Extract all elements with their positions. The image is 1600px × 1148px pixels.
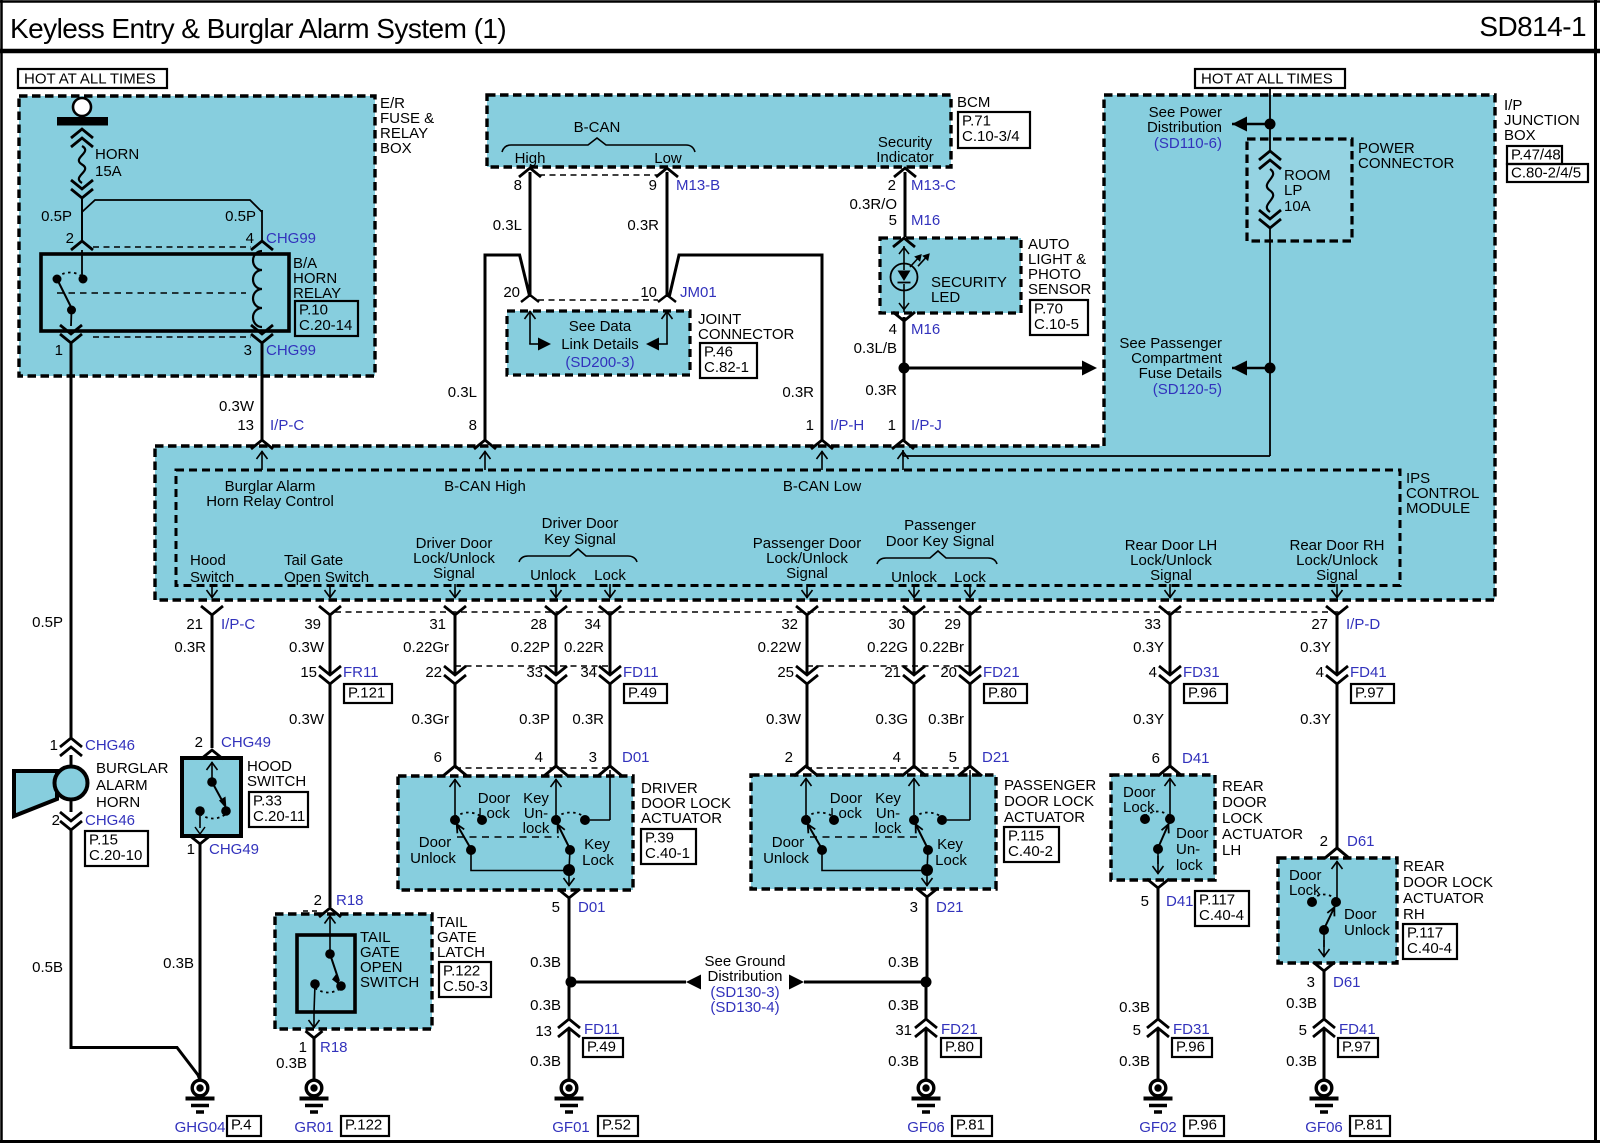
svg-text:0.22P: 0.22P xyxy=(511,639,550,656)
svg-text:REAR: REAR xyxy=(1222,778,1264,795)
svg-text:SENSOR: SENSOR xyxy=(1028,281,1092,298)
svg-text:34: 34 xyxy=(580,664,597,681)
svg-text:0.3L/B: 0.3L/B xyxy=(854,340,897,357)
svg-text:Signal: Signal xyxy=(786,565,828,582)
svg-text:GR01: GR01 xyxy=(294,1119,333,1136)
svg-text:C.82-1: C.82-1 xyxy=(704,359,749,376)
svg-text:D41: D41 xyxy=(1182,750,1210,767)
svg-text:2: 2 xyxy=(66,230,74,247)
svg-text:P.96: P.96 xyxy=(1176,1039,1205,1056)
svg-text:JM01: JM01 xyxy=(680,284,717,301)
svg-text:Door: Door xyxy=(772,834,805,851)
svg-text:8: 8 xyxy=(514,177,522,194)
svg-text:2: 2 xyxy=(785,749,793,766)
svg-text:C.40-2: C.40-2 xyxy=(1008,843,1053,860)
svg-text:FD31: FD31 xyxy=(1183,664,1220,681)
svg-text:4: 4 xyxy=(893,749,901,766)
svg-text:Keyless Entry & Burglar Alarm: Keyless Entry & Burglar Alarm System (1) xyxy=(10,13,506,44)
svg-text:P.49: P.49 xyxy=(628,685,657,702)
svg-text:34: 34 xyxy=(584,616,601,633)
svg-text:P.33: P.33 xyxy=(253,793,282,810)
svg-text:0.3W: 0.3W xyxy=(219,398,255,415)
svg-text:ACTUATOR: ACTUATOR xyxy=(641,810,722,827)
svg-text:C.50-3: C.50-3 xyxy=(443,978,488,995)
svg-text:P.46: P.46 xyxy=(704,344,733,361)
svg-text:D61: D61 xyxy=(1347,833,1375,850)
svg-text:lock: lock xyxy=(875,820,902,837)
svg-text:P.121: P.121 xyxy=(348,685,385,702)
svg-text:(SD130-4): (SD130-4) xyxy=(710,999,779,1016)
svg-text:4: 4 xyxy=(1316,664,1324,681)
svg-text:D01: D01 xyxy=(622,749,650,766)
svg-text:20: 20 xyxy=(940,664,957,681)
svg-text:I/P-C: I/P-C xyxy=(221,616,255,633)
svg-text:MODULE: MODULE xyxy=(1406,500,1470,517)
svg-text:Unlock: Unlock xyxy=(1344,922,1390,939)
svg-text:Unlock: Unlock xyxy=(763,850,809,867)
svg-text:DOOR: DOOR xyxy=(1222,794,1267,811)
svg-text:10: 10 xyxy=(640,284,657,301)
svg-text:0.3B: 0.3B xyxy=(1286,995,1317,1012)
svg-text:BOX: BOX xyxy=(1504,127,1536,144)
svg-text:0.22G: 0.22G xyxy=(867,639,908,656)
svg-text:ALARM: ALARM xyxy=(96,777,148,794)
svg-text:FD11: FD11 xyxy=(623,664,659,681)
svg-text:5: 5 xyxy=(889,212,897,229)
svg-text:M16: M16 xyxy=(911,212,940,229)
svg-text:0.3Y: 0.3Y xyxy=(1300,639,1331,656)
svg-text:CHG49: CHG49 xyxy=(209,841,259,858)
svg-text:15: 15 xyxy=(300,664,317,681)
svg-text:D21: D21 xyxy=(982,749,1010,766)
svg-text:Tail Gate: Tail Gate xyxy=(284,552,343,569)
svg-text:Signal: Signal xyxy=(433,565,475,582)
svg-text:P.122: P.122 xyxy=(443,963,480,980)
svg-text:25: 25 xyxy=(777,664,794,681)
svg-text:CONNECTOR: CONNECTOR xyxy=(1358,155,1455,172)
svg-text:Hood: Hood xyxy=(190,552,226,569)
svg-text:P.4: P.4 xyxy=(231,1117,252,1134)
svg-text:28: 28 xyxy=(530,616,547,633)
svg-text:2: 2 xyxy=(52,812,60,829)
svg-text:SD814-1: SD814-1 xyxy=(1479,11,1586,42)
svg-text:Distribution: Distribution xyxy=(1147,119,1222,136)
svg-text:0.3R: 0.3R xyxy=(572,711,604,728)
svg-text:LP: LP xyxy=(1284,182,1302,199)
svg-text:FD41: FD41 xyxy=(1339,1021,1376,1038)
svg-text:Lock: Lock xyxy=(830,805,862,822)
svg-text:FR11: FR11 xyxy=(343,664,379,681)
svg-text:Door: Door xyxy=(1176,825,1209,842)
svg-text:P.97: P.97 xyxy=(1342,1039,1371,1056)
svg-text:RELAY: RELAY xyxy=(293,285,341,302)
svg-text:Driver Door: Driver Door xyxy=(542,515,619,532)
svg-text:HOT AT ALL TIMES: HOT AT ALL TIMES xyxy=(1201,71,1333,88)
svg-text:4: 4 xyxy=(246,230,254,247)
svg-text:B-CAN: B-CAN xyxy=(574,119,621,136)
svg-text:1: 1 xyxy=(55,342,63,359)
svg-text:9: 9 xyxy=(649,177,657,194)
svg-text:Lock: Lock xyxy=(1289,882,1321,899)
svg-text:P.115: P.115 xyxy=(1008,828,1044,845)
svg-text:0.3B: 0.3B xyxy=(888,1053,919,1070)
svg-text:Lock: Lock xyxy=(582,852,614,869)
svg-text:ACTUATOR: ACTUATOR xyxy=(1004,809,1085,826)
svg-text:Key: Key xyxy=(937,836,963,853)
svg-text:P.117: P.117 xyxy=(1407,925,1443,942)
svg-text:GF06: GF06 xyxy=(907,1119,945,1136)
svg-text:FD21: FD21 xyxy=(983,664,1020,681)
svg-text:GF06: GF06 xyxy=(1305,1119,1343,1136)
svg-text:C.20-11: C.20-11 xyxy=(253,808,305,825)
svg-text:P.117: P.117 xyxy=(1199,892,1235,909)
svg-text:C.40-4: C.40-4 xyxy=(1407,940,1452,957)
svg-text:CHG49: CHG49 xyxy=(221,734,271,751)
svg-text:33: 33 xyxy=(526,664,543,681)
svg-text:Key Signal: Key Signal xyxy=(544,531,616,548)
svg-text:3: 3 xyxy=(244,342,252,359)
svg-text:GF01: GF01 xyxy=(552,1119,590,1136)
svg-text:CHG46: CHG46 xyxy=(85,737,135,754)
svg-text:0.22R: 0.22R xyxy=(564,639,604,656)
svg-text:0.3R: 0.3R xyxy=(174,639,206,656)
svg-text:C.20-10: C.20-10 xyxy=(89,847,142,864)
svg-text:CHG99: CHG99 xyxy=(266,230,316,247)
svg-text:CONNECTOR: CONNECTOR xyxy=(698,326,795,343)
svg-text:39: 39 xyxy=(304,616,321,633)
svg-text:CHG99: CHG99 xyxy=(266,342,316,359)
svg-text:32: 32 xyxy=(781,616,798,633)
svg-text:I/P-D: I/P-D xyxy=(1346,616,1380,633)
svg-text:P.10: P.10 xyxy=(299,302,328,319)
svg-text:LATCH: LATCH xyxy=(437,944,485,961)
svg-text:M13-B: M13-B xyxy=(676,177,720,194)
svg-text:1: 1 xyxy=(888,417,896,434)
svg-text:2: 2 xyxy=(1320,833,1328,850)
svg-text:0.3R: 0.3R xyxy=(782,384,814,401)
svg-text:0.3B: 0.3B xyxy=(276,1055,307,1072)
svg-text:FD21: FD21 xyxy=(941,1021,978,1038)
svg-text:D61: D61 xyxy=(1333,974,1361,991)
svg-text:0.3P: 0.3P xyxy=(519,711,550,728)
svg-text:3: 3 xyxy=(910,899,918,916)
svg-text:5: 5 xyxy=(552,899,560,916)
svg-text:Unlock: Unlock xyxy=(891,569,937,586)
svg-text:Lock: Lock xyxy=(954,569,986,586)
svg-text:1: 1 xyxy=(187,841,195,858)
svg-text:3: 3 xyxy=(589,749,597,766)
svg-text:22: 22 xyxy=(425,664,442,681)
svg-text:Door Key Signal: Door Key Signal xyxy=(886,533,994,550)
svg-text:M13-C: M13-C xyxy=(911,177,956,194)
svg-text:R18: R18 xyxy=(336,892,364,909)
svg-text:0.3Br: 0.3Br xyxy=(928,711,964,728)
svg-text:21: 21 xyxy=(884,664,901,681)
svg-text:C.40-4: C.40-4 xyxy=(1199,907,1244,924)
svg-text:1: 1 xyxy=(806,417,814,434)
svg-text:FD11: FD11 xyxy=(584,1021,620,1038)
svg-text:0.3Gr: 0.3Gr xyxy=(411,711,449,728)
svg-text:Passenger: Passenger xyxy=(904,517,976,534)
svg-text:Fuse Details: Fuse Details xyxy=(1139,365,1222,382)
svg-text:DOOR LOCK: DOOR LOCK xyxy=(1004,793,1094,810)
svg-text:P.81: P.81 xyxy=(1354,1117,1383,1134)
svg-text:SWITCH: SWITCH xyxy=(360,974,419,991)
svg-text:8: 8 xyxy=(469,417,477,434)
svg-text:21: 21 xyxy=(186,616,203,633)
svg-text:0.3Y: 0.3Y xyxy=(1300,711,1331,728)
svg-text:Low: Low xyxy=(654,150,682,167)
svg-text:0.22W: 0.22W xyxy=(758,639,802,656)
svg-text:29: 29 xyxy=(944,616,961,633)
svg-text:ACTUATOR: ACTUATOR xyxy=(1222,826,1303,843)
svg-text:BOX: BOX xyxy=(380,140,412,157)
svg-text:0.5P: 0.5P xyxy=(225,208,256,225)
svg-text:Indicator: Indicator xyxy=(876,149,934,166)
svg-text:6: 6 xyxy=(434,749,442,766)
svg-text:2: 2 xyxy=(314,892,322,909)
svg-text:0.5P: 0.5P xyxy=(41,208,72,225)
svg-text:0.3B: 0.3B xyxy=(530,1053,561,1070)
svg-text:0.3B: 0.3B xyxy=(163,955,194,972)
svg-text:P.81: P.81 xyxy=(956,1117,985,1134)
svg-text:(SD110-6): (SD110-6) xyxy=(1154,135,1222,152)
svg-text:P.96: P.96 xyxy=(1188,1117,1217,1134)
svg-text:P.122: P.122 xyxy=(345,1117,382,1134)
svg-text:B-CAN High: B-CAN High xyxy=(444,478,526,495)
svg-text:0.5P: 0.5P xyxy=(32,614,63,631)
svg-text:0.3B: 0.3B xyxy=(888,997,919,1014)
svg-text:13: 13 xyxy=(535,1023,552,1040)
svg-text:B-CAN Low: B-CAN Low xyxy=(783,478,862,495)
svg-text:Distribution: Distribution xyxy=(707,968,782,985)
svg-text:I/P-H: I/P-H xyxy=(830,417,864,434)
svg-text:30: 30 xyxy=(888,616,905,633)
svg-text:4: 4 xyxy=(535,749,543,766)
svg-text:5: 5 xyxy=(1133,1022,1141,1039)
svg-text:0.3B: 0.3B xyxy=(1119,999,1150,1016)
svg-text:High: High xyxy=(515,150,546,167)
svg-text:SWITCH: SWITCH xyxy=(247,773,306,790)
svg-text:GF02: GF02 xyxy=(1139,1119,1177,1136)
svg-text:D01: D01 xyxy=(578,899,606,916)
svg-text:0.3B: 0.3B xyxy=(530,997,561,1014)
svg-text:1: 1 xyxy=(50,737,58,754)
svg-text:P.52: P.52 xyxy=(602,1117,631,1134)
svg-text:P.39: P.39 xyxy=(645,830,674,847)
svg-text:Door: Door xyxy=(1344,906,1377,923)
svg-text:Switch: Switch xyxy=(190,569,234,586)
svg-text:P.47/48: P.47/48 xyxy=(1511,147,1561,164)
svg-text:P.80: P.80 xyxy=(988,685,1017,702)
svg-text:REAR: REAR xyxy=(1403,858,1445,875)
svg-text:33: 33 xyxy=(1144,616,1161,633)
svg-text:GHG04: GHG04 xyxy=(175,1119,226,1136)
svg-text:Signal: Signal xyxy=(1316,567,1358,584)
svg-text:15A: 15A xyxy=(95,163,122,180)
svg-text:Unlock: Unlock xyxy=(530,567,576,584)
svg-text:Open Switch: Open Switch xyxy=(284,569,369,586)
svg-text:Unlock: Unlock xyxy=(410,850,456,867)
svg-text:0.3W: 0.3W xyxy=(289,711,325,728)
svg-text:0.3W: 0.3W xyxy=(766,711,802,728)
svg-text:P.15: P.15 xyxy=(89,832,118,849)
svg-text:ACTUATOR: ACTUATOR xyxy=(1403,890,1484,907)
svg-text:0.5B: 0.5B xyxy=(32,959,63,976)
svg-text:1: 1 xyxy=(299,1039,307,1056)
svg-text:Un-: Un- xyxy=(1176,841,1200,858)
svg-text:0.3L: 0.3L xyxy=(448,384,477,401)
svg-text:lock: lock xyxy=(523,820,550,837)
svg-text:R18: R18 xyxy=(320,1039,348,1056)
svg-text:C.20-14: C.20-14 xyxy=(299,317,352,334)
svg-text:(SD120-5): (SD120-5) xyxy=(1153,381,1222,398)
svg-text:DOOR LOCK: DOOR LOCK xyxy=(1403,874,1493,891)
svg-text:4: 4 xyxy=(1149,664,1157,681)
svg-text:BURGLAR: BURGLAR xyxy=(96,760,169,777)
svg-text:(SD200-3): (SD200-3) xyxy=(565,354,634,371)
svg-text:I/P-C: I/P-C xyxy=(270,417,304,434)
svg-text:27: 27 xyxy=(1311,616,1328,633)
svg-text:P.49: P.49 xyxy=(587,1039,616,1056)
svg-text:0.3B: 0.3B xyxy=(1119,1053,1150,1070)
svg-text:FD41: FD41 xyxy=(1350,664,1387,681)
svg-text:2: 2 xyxy=(195,734,203,751)
svg-text:C.10-5: C.10-5 xyxy=(1034,316,1079,333)
svg-text:0.3B: 0.3B xyxy=(888,954,919,971)
svg-text:PASSENGER: PASSENGER xyxy=(1004,777,1096,794)
svg-text:C.10-3/4: C.10-3/4 xyxy=(962,128,1020,145)
svg-text:0.3R/O: 0.3R/O xyxy=(849,196,897,213)
svg-text:Horn Relay Control: Horn Relay Control xyxy=(206,493,334,510)
svg-text:P.80: P.80 xyxy=(945,1039,974,1056)
svg-text:FD31: FD31 xyxy=(1173,1021,1210,1038)
svg-text:Lock: Lock xyxy=(594,567,626,584)
svg-text:LOCK: LOCK xyxy=(1222,810,1263,827)
svg-text:5: 5 xyxy=(949,749,957,766)
svg-text:P.70: P.70 xyxy=(1034,301,1063,318)
svg-text:0.3B: 0.3B xyxy=(1286,1053,1317,1070)
svg-text:HORN: HORN xyxy=(96,794,140,811)
svg-text:31: 31 xyxy=(895,1022,912,1039)
svg-text:4: 4 xyxy=(889,321,897,338)
svg-text:0.3R: 0.3R xyxy=(865,382,897,399)
svg-text:BCM: BCM xyxy=(957,94,990,111)
svg-text:10A: 10A xyxy=(1284,198,1311,215)
svg-text:P.71: P.71 xyxy=(962,113,991,130)
svg-text:Lock: Lock xyxy=(935,852,967,869)
svg-text:Lock: Lock xyxy=(478,805,510,822)
svg-text:Key: Key xyxy=(584,836,610,853)
svg-text:5: 5 xyxy=(1299,1022,1307,1039)
svg-text:0.3Y: 0.3Y xyxy=(1133,711,1164,728)
svg-text:RH: RH xyxy=(1403,906,1425,923)
svg-text:0.3L: 0.3L xyxy=(493,217,522,234)
svg-text:lock: lock xyxy=(1176,857,1203,874)
svg-text:0.22Gr: 0.22Gr xyxy=(403,639,449,656)
svg-text:HOT AT ALL TIMES: HOT AT ALL TIMES xyxy=(24,71,156,88)
svg-text:C.40-1: C.40-1 xyxy=(645,845,690,862)
svg-text:5: 5 xyxy=(1141,893,1149,910)
svg-text:P.97: P.97 xyxy=(1355,685,1384,702)
svg-text:Link Details: Link Details xyxy=(561,336,639,353)
svg-text:0.3R: 0.3R xyxy=(627,217,659,234)
svg-text:3: 3 xyxy=(1307,974,1315,991)
svg-text:CHG46: CHG46 xyxy=(85,812,135,829)
svg-text:0.3B: 0.3B xyxy=(530,954,561,971)
svg-text:P.96: P.96 xyxy=(1188,685,1217,702)
svg-text:D21: D21 xyxy=(936,899,964,916)
svg-text:2: 2 xyxy=(888,177,896,194)
svg-text:0.22Br: 0.22Br xyxy=(920,639,964,656)
svg-text:M16: M16 xyxy=(911,321,940,338)
svg-text:I/P-J: I/P-J xyxy=(911,417,942,434)
svg-text:Door: Door xyxy=(419,834,452,851)
svg-text:0.3G: 0.3G xyxy=(875,711,908,728)
svg-text:LED: LED xyxy=(931,289,960,306)
svg-text:6: 6 xyxy=(1152,750,1160,767)
svg-text:Lock: Lock xyxy=(1123,799,1155,816)
svg-text:LH: LH xyxy=(1222,842,1241,859)
svg-text:0.3Y: 0.3Y xyxy=(1133,639,1164,656)
svg-text:Signal: Signal xyxy=(1150,567,1192,584)
svg-text:See Data: See Data xyxy=(569,318,632,335)
svg-text:D41: D41 xyxy=(1166,893,1194,910)
svg-text:13: 13 xyxy=(237,417,254,434)
svg-text:C.80-2/4/5: C.80-2/4/5 xyxy=(1511,165,1581,182)
svg-text:31: 31 xyxy=(429,616,446,633)
svg-text:HORN: HORN xyxy=(95,146,139,163)
svg-text:0.3W: 0.3W xyxy=(289,639,325,656)
svg-text:20: 20 xyxy=(503,284,520,301)
